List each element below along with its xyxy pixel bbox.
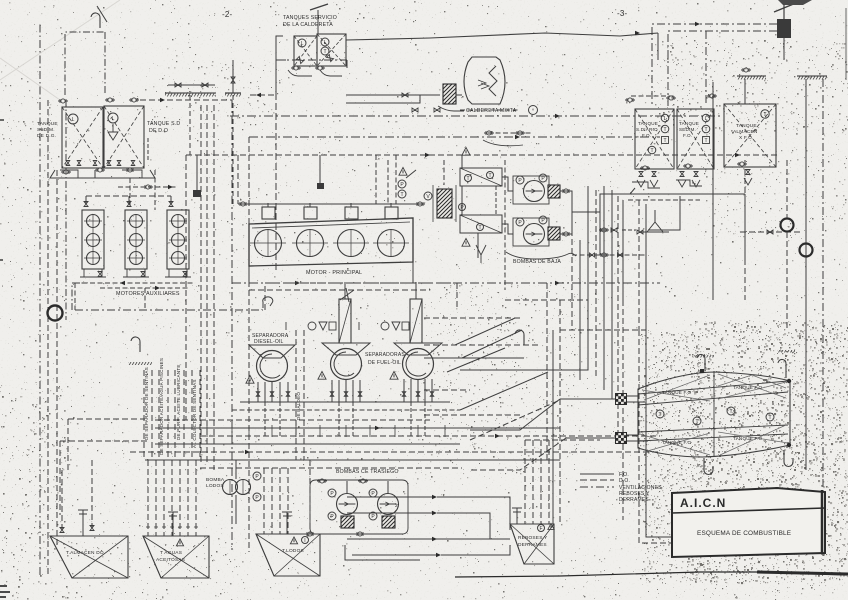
svg-text:D.O.: D.O. [619, 478, 630, 484]
tank almacen F.O. [724, 104, 776, 167]
svg-text:L: L [72, 117, 75, 123]
link y=358 [424, 357, 524, 359]
svg-text:TANQUE F.O: TANQUE F.O [662, 440, 691, 445]
legend line vent [580, 486, 614, 488]
title block divider [672, 508, 825, 513]
svg-text:T: T [488, 173, 491, 179]
svg-text:DE FUEL-OIL: DE FUEL-OIL [368, 360, 401, 366]
link y=300 [505, 299, 588, 301]
injector 2 stub [309, 203, 311, 207]
gauge T [398, 190, 406, 198]
sep valve x=332 [330, 392, 334, 397]
valve under tank L [296, 56, 303, 63]
flange tank top 2 [666, 96, 676, 100]
diagonal a [455, 318, 515, 345]
branch into tank [276, 59, 286, 61]
bus dash-dot y=116 [230, 115, 723, 117]
arrow fo line [635, 31, 640, 36]
sep1 drop x=288 [287, 382, 289, 402]
sep1 drop x=272 [271, 382, 273, 402]
aux motors return header [75, 282, 195, 284]
sep2 drop x=360 [359, 380, 361, 402]
sep1 drop x=280 [279, 382, 281, 402]
junction tick x=370 [369, 425, 371, 437]
top edge dark nick [778, 0, 812, 5]
block1 link b [627, 401, 645, 403]
valve [202, 83, 208, 87]
tank1 top valve a [60, 528, 64, 533]
vertical bus x=249 [248, 137, 250, 552]
flow arrow [245, 450, 250, 455]
gauge P [253, 493, 261, 501]
svg-text:DE D.G.: DE D.G. [37, 133, 56, 139]
service pipe x=152 [151, 370, 153, 460]
riser flange [599, 253, 609, 257]
tank bottom valve x=95 [93, 161, 97, 166]
service pipe x=175 [174, 370, 176, 460]
drain hook bottom 2 [784, 450, 793, 467]
svg-text:I: I [304, 538, 305, 544]
dash-dot into sep1 [75, 309, 263, 311]
tank drain drop [129, 178, 131, 205]
svg-text:DE D.O: DE D.O [149, 128, 168, 134]
de baldeo pipe 2 [303, 330, 305, 460]
riser x=618 to checker2 [616, 196, 618, 438]
bombas de baja enclosure 1 [513, 176, 549, 204]
sep valve x=360 [358, 392, 362, 397]
link to strainer [600, 212, 606, 230]
scan mark left edge [0, 120, 4, 260]
drop from deck strip A [189, 95, 191, 155]
diagonal c [447, 348, 505, 372]
line below ring1 [786, 232, 788, 330]
sounding pipe top 2 [778, 359, 786, 378]
service pipe x=184 [183, 370, 185, 460]
pipe ring crossing 2 [800, 244, 813, 257]
drop into tank2 x=148 [147, 460, 149, 536]
svg-text:F.O.: F.O. [683, 133, 692, 138]
sep drop ext x=411 [410, 402, 412, 436]
sep drop ext x=339 [338, 402, 340, 436]
flange under left tank [291, 66, 301, 70]
aux motor 2 inlet stub [128, 196, 130, 204]
junction tick x=272 [271, 425, 273, 437]
riser x=596 [595, 190, 597, 378]
flow arrow [436, 553, 441, 558]
fill pipe into tank3 [282, 512, 292, 534]
riser x=639 extension [639, 330, 700, 543]
service pipe x=168 [167, 370, 169, 460]
injector 3 stub [350, 203, 352, 207]
vertical x=553 [552, 330, 554, 524]
square gauge T [703, 137, 710, 144]
header y=419 [68, 418, 145, 420]
main engine cylinder 1 [250, 229, 286, 257]
line y=110 [460, 109, 520, 111]
hull block 1 [616, 394, 627, 405]
bus dash-dot y=283 [232, 282, 660, 284]
riser x=623 [622, 200, 624, 300]
transfer line 1 [347, 496, 432, 498]
tank servicio calderetta left [294, 36, 317, 66]
drop to junction block [196, 155, 198, 190]
aux motor 1 inlet stub [85, 196, 87, 204]
deck strip B [225, 93, 241, 97]
diag to checker2 [470, 438, 566, 470]
manifold y=436 [200, 435, 660, 437]
junction tick x=296 [295, 425, 297, 437]
valve header [168, 84, 215, 86]
filled sq left [700, 369, 704, 373]
svg-text:TANQUE F.O: TANQUE F.O [733, 385, 762, 390]
aux motor 2 base bracket [123, 269, 149, 277]
drop into tank2 x=164 [163, 460, 165, 536]
gauge P [459, 204, 466, 211]
gauge T [477, 224, 484, 231]
junction tick x=418 [417, 425, 419, 437]
riser x=639 [638, 200, 640, 330]
sep valve x=288 [286, 392, 290, 397]
tank diagonals upper-right [718, 374, 786, 399]
riser down from calderet tanks [275, 93, 277, 273]
tank sedim F.O. [677, 109, 714, 169]
svg-text:T.LODOS: T.LODOS [282, 548, 304, 554]
filter 2 (hatched) [548, 227, 560, 240]
diagonal b [462, 330, 522, 358]
line into ring1 [786, 160, 788, 218]
drop into tank3 x=280 [279, 468, 281, 534]
fill pipe into tank1 [78, 510, 88, 536]
transfer route c [441, 545, 510, 555]
enclosure corner [72, 283, 85, 310]
fuel line to caldereta [346, 94, 440, 96]
riser x=623 extension [622, 300, 624, 520]
svg-text:A.I.C.N: A.I.C.N [680, 496, 726, 510]
separator fuel-oil body cx=418 [394, 343, 442, 380]
tick x=196 [194, 526, 198, 528]
sep valve x=258 [256, 392, 260, 397]
funnel x=682 [678, 180, 686, 187]
HX2 drain [477, 233, 479, 258]
svg-text:DERRAMES: DERRAMES [518, 542, 547, 548]
riser valve b [618, 253, 623, 257]
drain drop right [744, 194, 746, 260]
junction block [193, 190, 201, 197]
aux motor 1 inlet valve [84, 202, 88, 207]
valve [231, 77, 235, 83]
warning triangle [399, 168, 407, 176]
gauge P [369, 489, 377, 497]
svg-text:CALDERETA MIXTA: CALDERETA MIXTA [466, 108, 517, 114]
deck strip A [165, 93, 216, 97]
HX2 [460, 215, 502, 233]
drop to tank almacen [744, 79, 746, 104]
link y=415 [424, 414, 520, 416]
gauge T [661, 125, 669, 133]
svg-text:TANQUE: TANQUE [638, 121, 658, 126]
gauge pointer line [406, 170, 416, 178]
vent riser [104, 32, 106, 95]
FO tanks drain header [630, 188, 745, 194]
svg-text:T: T [466, 176, 469, 182]
svg-text:F: F [539, 526, 542, 532]
tank bottom valve x=119 [117, 161, 121, 166]
flange tank top 1 [625, 98, 635, 102]
svg-text:X F.O.: X F.O. [739, 135, 754, 141]
gauge P [398, 180, 406, 188]
sludge pump (twin gear) [223, 480, 251, 495]
sep valve x=272 [270, 392, 274, 397]
rail feed drop [237, 155, 239, 204]
riser x=588 [560, 186, 588, 370]
rail inlet flange [238, 202, 248, 206]
vertical bus x=214 [213, 105, 215, 470]
sounding pipe top 1 [697, 354, 705, 371]
gauge L [68, 114, 78, 124]
vertical bus x=207 [206, 105, 208, 465]
tower feed [415, 282, 417, 299]
discharge run [572, 211, 600, 213]
junction tick x=207 [206, 425, 208, 437]
dashed link left of tanks [250, 94, 276, 96]
riser strip B [232, 60, 234, 93]
gauge T [321, 47, 329, 55]
vent line B to tanks [668, 31, 777, 106]
flange mid [599, 228, 609, 232]
flow arrow [432, 495, 437, 500]
drop into tank3 x=264 [263, 468, 265, 534]
gauge T low [648, 146, 656, 154]
drop into tank3 x=272 [271, 468, 273, 534]
vent head box (dark) [777, 19, 791, 38]
shore line vertical [805, 79, 807, 275]
gauge cluster sep2 [286, 322, 336, 330]
svg-text:BOMBAS CE TRASIEGO: BOMBAS CE TRASIEGO [336, 469, 399, 475]
vertical x=560 [559, 300, 561, 524]
main engine cylinder 4 [373, 229, 409, 257]
transfer line 4 [352, 554, 436, 556]
Y strainer [641, 210, 669, 232]
svg-text:DE BALDEO: DE BALDEO [296, 392, 301, 420]
flange tank2 top b [129, 98, 139, 102]
pump2 suction [502, 224, 513, 234]
deck strip right-1 [737, 76, 766, 80]
drain flange [143, 185, 153, 189]
vertical bus x=186 [185, 155, 187, 420]
svg-text:TANQUE F.O: TANQUE F.O [662, 390, 691, 395]
flow arrow [160, 98, 165, 103]
auxiliary motor 1 [82, 210, 104, 269]
tank reboses y derrames [510, 524, 554, 564]
hatch mark 1 [696, 355, 714, 358]
junction tick x=320 [319, 425, 321, 437]
bus dashed y=155 [186, 154, 778, 156]
fill pipe into tank2 [168, 512, 178, 536]
FO tank valve x=654 [652, 172, 656, 177]
gauge P [328, 489, 336, 497]
vertical bus x=48 [47, 100, 49, 575]
vertical bus x=201 [200, 105, 202, 465]
aux motor 1 base bracket [80, 269, 106, 277]
flow arrow [256, 93, 261, 98]
link risers bottom [560, 329, 646, 331]
return drop left [74, 283, 76, 310]
arrow on y155 right [735, 153, 740, 158]
gauge cluster sep3 [359, 322, 409, 330]
valve [412, 108, 418, 112]
transfer line 2 [347, 512, 432, 514]
drop into reboses x=525 [524, 440, 526, 524]
service pipe x=200 [199, 370, 201, 460]
tank lodos [256, 534, 320, 576]
sep valve x=432 [430, 392, 434, 397]
pump1 inlet [346, 481, 348, 493]
gauge L [702, 114, 710, 122]
flow arrow [375, 426, 380, 431]
ship hull section outline [638, 371, 790, 457]
gauge L [321, 38, 329, 46]
FO tank valve x=696 [694, 172, 698, 177]
sep drop ext x=280 [279, 402, 281, 436]
funnel drain [476, 245, 486, 263]
gauge T [727, 407, 735, 415]
engine drain [248, 266, 250, 283]
sep collector y=402 [240, 401, 450, 403]
drop into tank3 right [309, 460, 311, 534]
riser x=646 [645, 204, 647, 330]
block2 link a [627, 434, 638, 436]
warning triangle below HX2 [462, 239, 470, 247]
heater frame [433, 185, 456, 222]
drop x=388 [387, 160, 389, 204]
sep1 drop x=265 [264, 382, 266, 402]
trasiego filter 1 [341, 516, 354, 528]
hatch mark 2 [777, 350, 795, 353]
trasiego enclosure [310, 480, 408, 534]
sep2 drop x=353 [352, 380, 354, 402]
flow arrow [515, 135, 520, 140]
valve at strainer [637, 230, 643, 234]
svg-text:T: T [763, 112, 766, 118]
transfer route b [437, 513, 490, 539]
svg-text:L: L [324, 40, 327, 46]
gauge P [539, 216, 547, 224]
shore vertical upper [805, 79, 807, 160]
drop into tank2 x=180 [179, 460, 181, 536]
fill pipe reboses [512, 508, 522, 524]
wire y=370 to riser [460, 369, 588, 371]
service pipe x=192 [191, 370, 193, 460]
drop [346, 60, 348, 68]
riser x=646 extension [646, 330, 700, 537]
junction tick x=249 [248, 425, 250, 437]
riser x=572 [571, 212, 573, 330]
shore line lower [805, 257, 807, 470]
aux motor 2 inlet valve [127, 202, 131, 207]
vertical x=505 [504, 160, 506, 290]
tank almacen D.O. (bottom) [50, 536, 128, 578]
stub into caldereta [456, 94, 462, 96]
brace bombas de baja [506, 252, 576, 259]
diag to checker1 [470, 399, 560, 430]
svg-text:T: T [768, 415, 771, 421]
paper crease mark [97, 6, 107, 22]
warning triangle above HX1 [462, 148, 470, 156]
aux motor 3 outlet valve [183, 272, 187, 277]
vertical x=547 [546, 283, 548, 460]
sep valve x=418 [416, 392, 420, 397]
main vertical bus x=40 [39, 22, 41, 575]
engine drain right [412, 262, 414, 283]
sep valve x=404 [402, 392, 406, 397]
flange under tank c [737, 162, 747, 166]
svg-text:-3-: -3- [617, 9, 628, 18]
junction tick x=232 [231, 425, 233, 437]
flow arrow [555, 281, 560, 286]
flow arrow [168, 185, 173, 190]
main engine cylinder 2 [292, 229, 328, 257]
bracket under valves [483, 140, 523, 146]
pipe ring crossing left [48, 306, 63, 321]
svg-text:T AGUAS: T AGUAS [160, 550, 182, 556]
flange under tank b [683, 164, 693, 168]
aux motors return header 2 [100, 287, 190, 289]
deck strip right-2 (shore conn) [797, 76, 827, 80]
block2 link b [627, 440, 648, 442]
title block right edge shade [821, 490, 824, 554]
svg-text:SEDIM.: SEDIM. [37, 127, 55, 133]
discharge flange 1 [561, 189, 571, 193]
flow arrow [432, 537, 437, 542]
collector to risers [600, 194, 630, 255]
valve far right [767, 230, 773, 234]
separator enclosure top [265, 283, 457, 310]
svg-text:T: T [658, 412, 661, 418]
main engine cylinder 3 [333, 229, 369, 257]
manifold y=468 [200, 467, 462, 469]
injector 1 [262, 207, 275, 219]
HX1 top stub [461, 155, 463, 168]
tank servicio calderetta right [317, 34, 346, 66]
svg-text:TANQUE: TANQUE [37, 121, 58, 127]
discharge flange 2 [561, 232, 571, 236]
rail end flange [415, 202, 425, 206]
link under tanks [628, 199, 700, 201]
svg-text:T.ALMACEN DO: T.ALMACEN DO [66, 550, 104, 556]
frame bottom thick right [757, 572, 848, 574]
injector 4 [385, 207, 398, 219]
warn reboses [548, 524, 554, 530]
HX1 (D.O. cooler) [460, 168, 502, 186]
valve on deck strip A [175, 83, 181, 87]
valve mid [611, 228, 617, 232]
tick x=188 [186, 526, 190, 528]
gauge L [108, 113, 118, 123]
HX link 2 [495, 186, 497, 215]
drop into reboses x=541 [540, 440, 542, 524]
sep3 drop x=432 [431, 379, 433, 402]
flow arrow [495, 434, 500, 439]
tank bottom valve x=109 [107, 161, 111, 166]
bus dashed y=290 [249, 289, 430, 291]
svg-text:T: T [704, 138, 707, 144]
separator heater tower cx=418 [410, 299, 422, 343]
drip tray calderet tanks [288, 70, 342, 76]
drop into tank2 x=172 [171, 460, 173, 536]
svg-text:TANQUE: TANQUE [736, 123, 757, 129]
main engine block [249, 218, 413, 266]
warn aguas [176, 539, 183, 546]
